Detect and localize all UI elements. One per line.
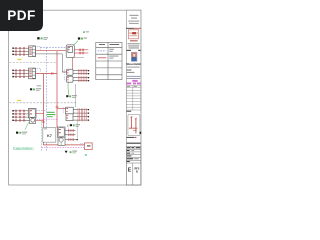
legend row2: red cable symbol bbox=[98, 57, 107, 59]
riser bus: red vertical main bbox=[56, 51, 58, 128]
tick on red bus bbox=[56, 106, 59, 107]
zone divider dashed upper bbox=[10, 61, 58, 63]
outgoing blue dashed wire C3 bbox=[36, 109, 47, 111]
label top small bbox=[83, 31, 89, 33]
terminal block bbox=[29, 68, 36, 79]
label L-C5 (triangle) bbox=[65, 151, 78, 154]
title strip frame bbox=[126, 10, 141, 185]
magenta dashed stub bbox=[37, 118, 58, 120]
spare blue dashed stub bbox=[36, 46, 41, 49]
wire row 1 bbox=[13, 69, 29, 71]
socket block with circle bbox=[58, 137, 65, 145]
outgoing red wire C3 bbox=[36, 113, 44, 115]
junction box J1 bbox=[66, 45, 74, 58]
consultant address lines bbox=[128, 43, 140, 48]
key plan red riser figure bbox=[129, 116, 138, 133]
svg-text:PDF: PDF bbox=[7, 8, 35, 23]
green stub below socket bbox=[60, 142, 62, 145]
node dots bbox=[12, 110, 14, 121]
architect address text block bbox=[128, 15, 139, 24]
label L-J2 bbox=[66, 95, 77, 98]
riser bus: blue dashed vertical bbox=[46, 47, 48, 151]
SCHEMATIC bbox=[10, 31, 93, 156]
riser bus: teal dashed vertical bbox=[41, 121, 43, 152]
bullet row bbox=[127, 70, 132, 71]
junction box J2 upper bbox=[67, 69, 73, 75]
pin ids red bbox=[66, 108, 68, 118]
terminal block upper bbox=[29, 108, 36, 118]
green leader above bbox=[67, 125, 69, 127]
drawing index table bbox=[126, 86, 141, 111]
blue dashes beside J2 bbox=[63, 70, 65, 82]
client sub line bbox=[127, 67, 139, 68]
block lower bbox=[66, 114, 73, 121]
green riser note text bbox=[47, 112, 55, 117]
core count ticks bbox=[15, 47, 24, 56]
project title line bbox=[127, 143, 141, 144]
magenta dashed bottom run bbox=[42, 146, 85, 148]
red feeder into J2 bbox=[62, 71, 66, 73]
wire row 3 bbox=[13, 76, 29, 78]
svg-text:B: B bbox=[136, 169, 138, 173]
wire row 2 bbox=[13, 50, 29, 52]
wire row 3 bbox=[13, 53, 29, 55]
revision table texts bbox=[127, 147, 140, 162]
spare blue dashed stub bbox=[36, 69, 41, 72]
green drop wire J2 bbox=[67, 82, 70, 94]
svg-text:K7: K7 bbox=[47, 134, 52, 138]
key plan box bbox=[128, 114, 140, 135]
floor outlet red box bbox=[85, 143, 93, 150]
core ticks bbox=[69, 129, 74, 141]
end dot bbox=[77, 139, 78, 140]
magenta highlighted row bbox=[126, 83, 131, 85]
cyan marker bbox=[85, 154, 87, 156]
consultant logo box (red) bbox=[128, 30, 138, 39]
key plan caption bbox=[127, 111, 132, 112]
key plan locator dot bbox=[140, 132, 142, 134]
wire row 1 bbox=[13, 110, 29, 112]
consultant name red text bbox=[130, 40, 138, 41]
terminal ids red bbox=[29, 47, 31, 54]
ticks on J1 pair bbox=[79, 49, 83, 55]
blue dashes beside C4 bbox=[63, 107, 65, 113]
junction box J2 lower bbox=[67, 76, 73, 82]
gray drop wire C4 to C5 bbox=[76, 121, 78, 140]
legend row1: blue dashed symbol bbox=[98, 50, 106, 52]
riser red vertical second bbox=[44, 74, 85, 145]
label L-J1 bbox=[37, 37, 48, 40]
wire row 3 bbox=[13, 116, 29, 118]
project description lines bbox=[127, 76, 141, 79]
outgoing red wire C2 bbox=[36, 73, 58, 75]
callout leader green J1 bbox=[74, 41, 78, 45]
end node dots J2 wires bbox=[88, 70, 89, 81]
red feeder into C4 bbox=[57, 108, 66, 110]
socket block with circle bbox=[30, 118, 36, 124]
J1 bottom gray stub bbox=[70, 57, 84, 59]
label L-C3 bbox=[16, 132, 27, 135]
terminal ids red bbox=[29, 70, 31, 77]
label L-J1b bbox=[78, 37, 87, 39]
blue dashes near outlet bbox=[80, 143, 83, 145]
core count ticks bbox=[15, 110, 24, 122]
outgoing gray wire C1 bbox=[36, 54, 67, 72]
outgoing red wire C1 bbox=[36, 50, 67, 52]
PDF badge bbox=[0, 0, 43, 31]
block upper bbox=[58, 127, 66, 137]
node dots bbox=[12, 47, 14, 55]
outgoing blue dashed wire C1 bbox=[41, 46, 67, 48]
wire row 4 bbox=[13, 119, 30, 121]
callout leader green C3 bbox=[25, 122, 29, 130]
node dots bbox=[12, 70, 14, 78]
gray drop wire to C4 bbox=[75, 84, 77, 107]
wire row 1 bbox=[13, 47, 29, 49]
J2 outgoing wires bbox=[73, 71, 88, 81]
zone divider dashed lower bbox=[10, 102, 76, 104]
wire row 2 bbox=[13, 113, 29, 115]
magenta dotted stub vertical bbox=[67, 125, 69, 134]
core count ticks bbox=[15, 69, 24, 78]
legend header text bbox=[99, 44, 105, 45]
client row small labels bbox=[127, 50, 131, 51]
zone label yellow upper bbox=[18, 59, 22, 60]
tick on second red riser bbox=[42, 121, 45, 122]
client crest logo bbox=[131, 52, 137, 61]
tick on C2 red wire bbox=[52, 72, 53, 74]
core ticks vertical over rows bbox=[78, 108, 86, 121]
J1 outgoing red pair bbox=[74, 49, 88, 51]
label L-C4 bbox=[70, 124, 80, 127]
wire row 2 bbox=[13, 73, 29, 75]
magenta highlighted field bbox=[132, 80, 137, 82]
svg-text:Wasser·Behält: Wasser·Behält bbox=[127, 62, 141, 66]
ticks on J2 wires bbox=[79, 69, 87, 81]
terminal block bbox=[29, 46, 36, 57]
end node dots bbox=[88, 109, 89, 121]
outgoing wires bbox=[73, 110, 88, 121]
outgoing wires bbox=[65, 131, 77, 140]
legend table frame bbox=[96, 42, 122, 79]
svg-text:Kapeltafeln: Kapeltafeln bbox=[13, 146, 34, 150]
J1 down red feeder bbox=[72, 58, 74, 70]
separator line bbox=[126, 27, 134, 29]
sheet border frame bbox=[9, 10, 141, 185]
socket red wire C3 bbox=[36, 119, 44, 121]
block upper bbox=[66, 107, 74, 114]
zone label yellow lower bbox=[17, 100, 21, 101]
label L-C2 bbox=[30, 85, 41, 91]
caption under key plan bbox=[127, 137, 135, 138]
